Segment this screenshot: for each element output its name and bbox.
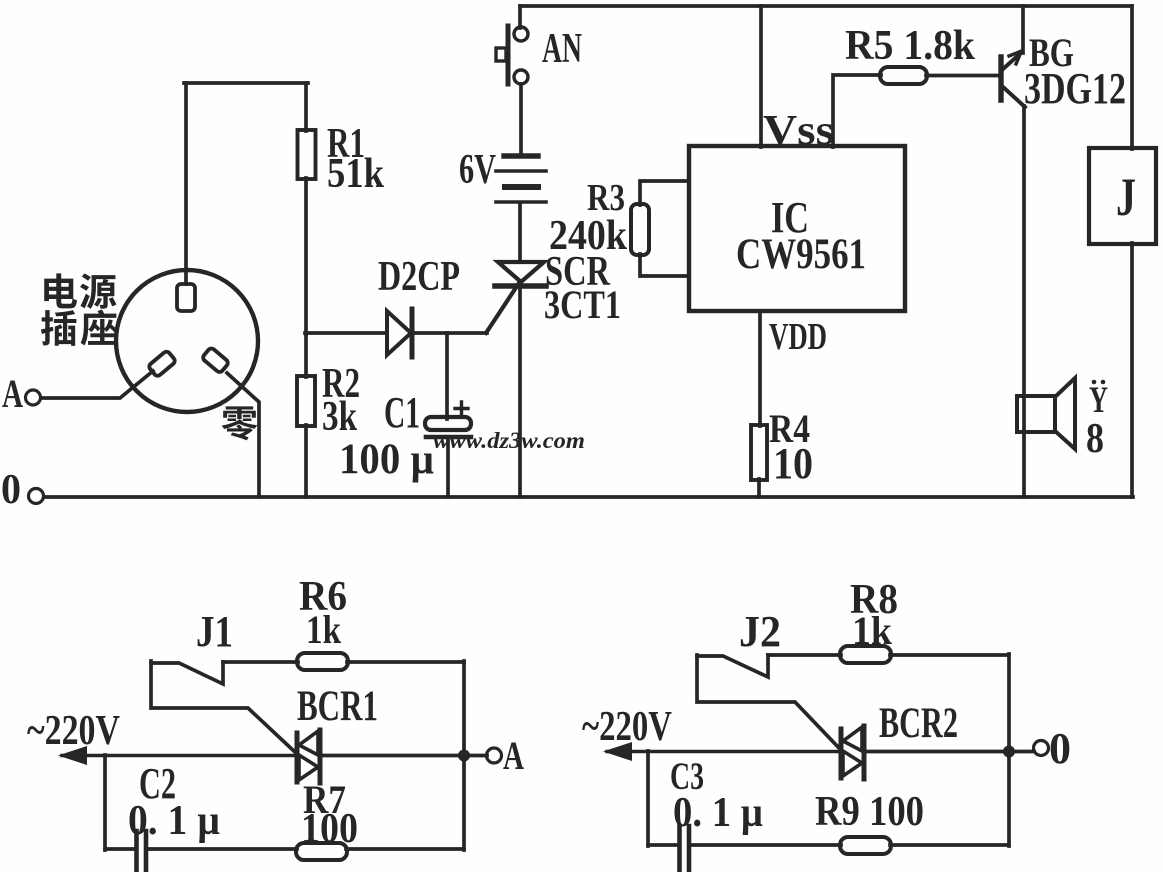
- wire J1 to R6: [223, 660, 298, 664]
- wire right side sub2: [1007, 654, 1011, 846]
- transistor BG collector: [1003, 52, 1022, 69]
- svg-text:3CT1: 3CT1: [544, 282, 621, 327]
- svg-text:3DG12: 3DG12: [1024, 64, 1126, 113]
- wire 220V feed line left: [62, 754, 296, 757]
- wire A terminal to left pin: [41, 371, 153, 398]
- svg-text:1k: 1k: [852, 608, 893, 653]
- resistor R5: [880, 67, 927, 84]
- thyristor SCR triangle: [498, 262, 544, 282]
- capacitor C3 left plate: [677, 826, 682, 872]
- svg-text:10: 10: [773, 439, 813, 488]
- wire R2 to bottom rail: [304, 425, 308, 497]
- relay contact J1: [151, 662, 223, 684]
- svg-text:~220V: ~220V: [27, 708, 120, 754]
- wire J to bottom rail: [1130, 243, 1134, 497]
- resistor R9: [840, 837, 891, 854]
- wire top rail: [520, 4, 1132, 8]
- svg-text:0. 1 µ: 0. 1 µ: [128, 798, 220, 844]
- triac BCR1 lower triangle: [299, 755, 318, 780]
- wire rail to AN: [518, 6, 522, 28]
- svg-text:8: 8: [1086, 416, 1104, 462]
- svg-text:C1: C1: [384, 388, 420, 437]
- relay J box: [1089, 148, 1156, 244]
- svg-text:3k: 3k: [322, 394, 358, 440]
- triac BCR2 right bar: [862, 726, 867, 779]
- wire battery to SCR: [518, 204, 522, 262]
- svg-text:0: 0: [1, 467, 21, 513]
- wire C2 branch: [103, 755, 107, 850]
- wire junction to diode: [305, 331, 387, 335]
- wire R3 bottom bracket: [640, 254, 689, 276]
- wire rail to J: [1130, 6, 1134, 149]
- wire right pin to bottom rail: [227, 373, 259, 497]
- thyristor SCR gate: [486, 283, 519, 333]
- junction node O1: [1003, 746, 1015, 758]
- resistor R6: [297, 653, 348, 670]
- svg-text:Y: Y: [1089, 380, 1108, 421]
- triac BCR2 left bar: [839, 729, 844, 778]
- wire R8 to right corner: [890, 653, 1009, 657]
- speaker Y horn: [1055, 378, 1075, 449]
- wire emitter to speaker: [1022, 106, 1026, 497]
- svg-text:6V: 6V: [459, 147, 496, 193]
- resistor R3: [631, 204, 649, 255]
- triac BCR2 lower triangle: [843, 751, 862, 776]
- wire J2 gate path: [697, 655, 839, 748]
- triac BCR1 left bar: [295, 733, 300, 782]
- svg-text:CW9561: CW9561: [736, 231, 866, 278]
- capacitor C1 top plate: [425, 417, 471, 430]
- svg-text:J2: J2: [739, 607, 781, 656]
- diode D2CP cathode bar: [410, 309, 415, 357]
- wire right side sub1: [462, 661, 466, 850]
- svg-text:~220V: ~220V: [582, 704, 672, 750]
- transistor BG emitter: [1003, 87, 1025, 107]
- diode D2CP triangle: [387, 311, 411, 355]
- junction node A1: [458, 750, 470, 762]
- battery 6V plate 1 short: [504, 153, 538, 158]
- wire 220V feed line right: [607, 750, 840, 753]
- socket top pin: [177, 284, 195, 311]
- pushbutton AN actuator bar: [506, 26, 511, 84]
- wire rail to R1: [304, 83, 308, 131]
- wire J2 to R8: [768, 653, 841, 657]
- svg-text:1k: 1k: [306, 607, 342, 652]
- svg-text:J: J: [1116, 167, 1136, 227]
- terminal O circle: [29, 489, 44, 504]
- wire BCR1 to A: [322, 754, 487, 758]
- svg-text:R9 100: R9 100: [815, 789, 924, 835]
- wire collector to rail: [1021, 6, 1025, 53]
- transistor BG base bar: [998, 57, 1003, 100]
- wire C3 branch: [646, 751, 650, 846]
- wire AN to battery: [519, 84, 523, 156]
- wire C1 branch: [445, 333, 449, 419]
- wire C1 to bottom rail: [446, 439, 450, 497]
- wire R3 top bracket: [640, 181, 689, 205]
- socket right pin: [202, 347, 230, 374]
- resistor R4: [751, 425, 767, 480]
- terminal O2 circle: [1034, 741, 1049, 756]
- wire VDD vertical: [758, 311, 762, 426]
- svg-text:A: A: [2, 371, 23, 416]
- svg-text:A: A: [503, 733, 524, 778]
- socket left pin: [148, 350, 176, 377]
- wire diode to SCR gate: [413, 331, 487, 335]
- wire bottom sub2 c: [890, 843, 1009, 847]
- label 座 (socket): [81, 310, 117, 346]
- arrow 220V right: [603, 742, 632, 761]
- label Y diaeresis dots: [1092, 380, 1097, 385]
- transistor BG collector arrow: [1009, 51, 1022, 64]
- terminal A circle: [26, 390, 41, 405]
- capacitor C2 right plate: [144, 831, 149, 872]
- svg-text:R5 1.8k: R5 1.8k: [845, 23, 976, 69]
- wire junction to R2: [304, 333, 308, 377]
- wire R4 to bottom rail: [757, 479, 761, 497]
- svg-text:0. 1 µ: 0. 1 µ: [673, 790, 763, 836]
- battery 6V plate 4 long: [496, 200, 546, 204]
- wire socket top to rail: [184, 83, 188, 284]
- svg-text:AN: AN: [542, 26, 582, 72]
- label 零 (neutral): [222, 406, 258, 440]
- svg-text:BCR2: BCR2: [879, 700, 958, 747]
- capacitor C2 left plate: [134, 831, 139, 872]
- capacitor C3 right plate: [687, 826, 692, 872]
- svg-text:100 µ: 100 µ: [339, 436, 434, 483]
- battery 6V plate 2 long: [496, 169, 546, 173]
- svg-text:VDD: VDD: [769, 316, 827, 358]
- svg-text:240k: 240k: [549, 213, 628, 259]
- wire Vss vertical: [759, 6, 763, 147]
- relay contact J2: [697, 655, 768, 677]
- terminal A2 circle: [487, 748, 502, 763]
- arrow 220V left: [58, 746, 87, 765]
- label 源 (source): [80, 273, 116, 308]
- speaker Y box: [1017, 396, 1055, 432]
- wire R6 to right corner: [347, 660, 464, 664]
- label 电 (power): [44, 273, 77, 308]
- resistor R2: [297, 376, 315, 426]
- wire BCR2 to O: [866, 750, 1034, 754]
- pushbutton AN bottom contact: [514, 70, 528, 84]
- svg-text:BCR1: BCR1: [297, 683, 378, 730]
- resistor R7: [296, 843, 347, 860]
- wire bottom sub1 c: [346, 847, 464, 851]
- wire bottom rail: [44, 495, 1133, 499]
- capacitor C1 bottom plate: [426, 435, 471, 440]
- battery 6V plate 3 short: [505, 184, 538, 190]
- wire IC top to R5: [833, 75, 881, 147]
- svg-text:D2CP: D2CP: [378, 254, 460, 300]
- wire SCR to bottom rail: [518, 287, 522, 497]
- svg-text:J1: J1: [196, 607, 233, 656]
- capacitor C1 plus sign: [455, 402, 468, 415]
- triac BCR1 upper triangle: [299, 731, 318, 755]
- thyristor SCR cathode bar: [495, 283, 546, 289]
- svg-text:0: 0: [1049, 724, 1071, 773]
- power socket circle: [116, 270, 258, 412]
- wire bottom sub2 b: [690, 843, 841, 847]
- wire J1 gate path: [151, 661, 296, 753]
- wire bottom sub1 b: [147, 847, 297, 851]
- triac BCR1 right bar: [318, 730, 323, 783]
- triac BCR2 upper triangle: [843, 727, 862, 751]
- IC CW9561 box: [689, 146, 905, 311]
- resistor R1: [298, 130, 316, 179]
- resistor R8: [840, 646, 891, 663]
- wire R1 to junction: [304, 178, 308, 334]
- wire R5 to base: [926, 74, 1000, 78]
- pushbutton AN top contact: [514, 27, 528, 41]
- svg-text:51k: 51k: [327, 151, 385, 197]
- svg-text:www.dz3w.com: www.dz3w.com: [433, 428, 585, 453]
- wire bottom sub1 a: [105, 847, 135, 851]
- label 插 (plug): [41, 310, 76, 346]
- svg-text:100: 100: [301, 806, 358, 852]
- wire bottom sub2 a: [648, 843, 678, 847]
- pushbutton AN actuator nub: [496, 48, 506, 61]
- wire top-left horizontal: [184, 81, 308, 85]
